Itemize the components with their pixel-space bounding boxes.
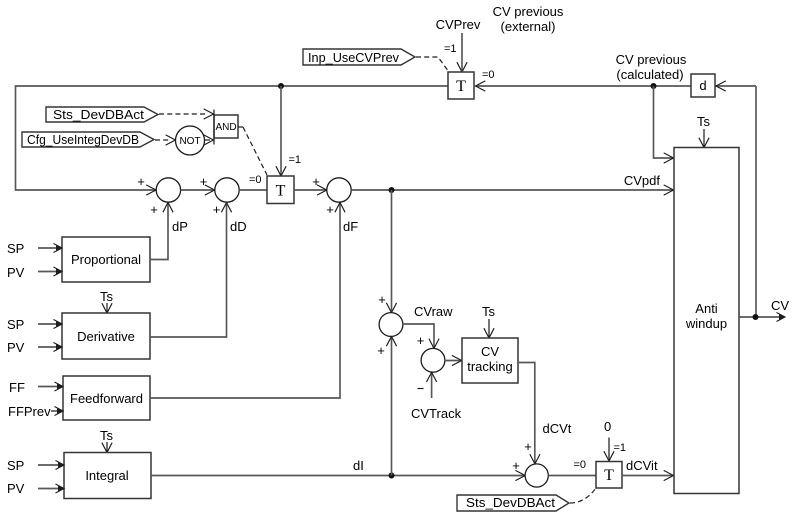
svg-text:=0: =0 <box>482 69 495 81</box>
wire: Ts arrow into Derivative <box>106 303 108 312</box>
svg-text:+: + <box>213 202 221 217</box>
svg-text:dD: dD <box>230 219 247 234</box>
svg-text:0: 0 <box>604 419 611 434</box>
svg-text:+: + <box>150 202 158 217</box>
svg-text:FFPrev: FFPrev <box>8 404 51 419</box>
tag Sts_DevDBAct (bottom) <box>457 495 569 511</box>
svg-text:dCVit: dCVit <box>626 458 658 473</box>
svg-text:Derivative: Derivative <box>77 329 135 344</box>
wire: Ts arrow into CV tracking <box>488 319 490 338</box>
svg-text:(calculated): (calculated) <box>616 67 683 82</box>
svg-text:Ts: Ts <box>697 114 711 129</box>
wire: Feedforward output up to S3 <box>150 203 340 398</box>
wire: Derivative output up to S2 <box>150 203 227 337</box>
summing junction S5 (tracking error) <box>421 348 445 372</box>
wire: S1 to S2 <box>181 189 215 191</box>
wire: Ts arrow into Anti windup <box>703 129 705 147</box>
svg-text:CV: CV <box>771 298 789 313</box>
wire: dashed from Cfg tag to NOT <box>155 139 169 141</box>
wire: dashed from tag to T3 bottom corner <box>570 488 596 503</box>
svg-text:Ts: Ts <box>100 289 114 304</box>
tag Cfg_UseIntegDevDB <box>22 132 154 147</box>
arrow into sum1 <box>146 185 156 195</box>
wire: CVPrev stub into T1 <box>461 33 463 70</box>
wire: T3 output dCVit into Anti windup <box>622 475 673 477</box>
svg-text:+: + <box>326 202 334 217</box>
wire: S6 to T3 <box>548 475 596 477</box>
node: junction dot CV previous (calculated) <box>651 83 657 89</box>
svg-text:dCVt: dCVt <box>543 421 572 436</box>
svg-text:CV previous: CV previous <box>493 4 564 19</box>
selector T1 <box>448 72 474 99</box>
svg-text:AND: AND <box>215 122 236 133</box>
svg-text:CV: CV <box>481 344 499 359</box>
wire: SP into Derivative <box>38 323 61 325</box>
svg-text:+: + <box>378 292 386 307</box>
svg-text:CVPrev: CVPrev <box>436 17 481 32</box>
svg-text:SP: SP <box>7 458 24 473</box>
wire: S5 to CV tracking box <box>445 360 462 362</box>
node: junction dot dF output <box>389 187 395 193</box>
wire: SP into Proportional <box>38 247 61 249</box>
svg-text:CV previous: CV previous <box>616 52 687 67</box>
svg-text:T: T <box>456 78 466 95</box>
svg-text:(external): (external) <box>501 19 556 34</box>
svg-text:Anti: Anti <box>695 301 718 316</box>
node: junction dot on CV output <box>753 314 759 320</box>
block CV tracking <box>462 338 518 383</box>
wire: Ts arrow into Integral <box>106 442 108 452</box>
svg-text:FF: FF <box>9 380 25 395</box>
node: junction dot on y=86 wire above T2 <box>278 83 284 89</box>
wire: CV tracking output down to S6 <box>518 363 535 464</box>
gate NOT <box>176 126 205 155</box>
svg-text:Ts: Ts <box>100 428 114 443</box>
wire: FFPrev into Feedforward <box>51 410 62 412</box>
svg-text:+: + <box>417 333 425 348</box>
svg-text:PV: PV <box>7 340 25 355</box>
wire: left feedback rail from T1 output going left, down, to sum1 <box>16 86 449 190</box>
wire: dashed from Inp_UseCVPrev to T1 corner <box>416 57 449 72</box>
svg-text:+: + <box>137 174 145 189</box>
block Anti windup <box>674 148 739 494</box>
selector T3 <box>596 462 622 489</box>
arrow into T2 top <box>276 166 286 176</box>
svg-text:T: T <box>276 183 286 200</box>
tag Sts_DevDBAct (top) <box>46 107 158 122</box>
svg-text:dI: dI <box>353 458 364 473</box>
wire: AND output stub + dashed diagonal to T2 <box>238 126 243 128</box>
svg-text:PV: PV <box>7 481 25 496</box>
block Proportional <box>62 237 150 282</box>
wire: PV into Derivative <box>38 346 61 348</box>
svg-text:Sts_DevDBAct: Sts_DevDBAct <box>466 495 555 510</box>
svg-text:+: + <box>377 343 385 358</box>
wire: dashed from Sts_DevDBAct to AND input <box>159 113 207 115</box>
svg-text:SP: SP <box>7 241 24 256</box>
wire: CVTrack stub into S5 bottom <box>431 372 433 398</box>
svg-text:dP: dP <box>172 219 188 234</box>
svg-text:=1: =1 <box>614 442 627 454</box>
wire: PV into Integral <box>38 488 63 490</box>
svg-text:+: + <box>524 439 532 454</box>
wire: from right rail into d box right side <box>716 85 756 87</box>
summing junction S2 <box>215 178 239 202</box>
svg-text:Ts: Ts <box>482 304 496 319</box>
svg-text:Integral: Integral <box>85 468 128 483</box>
wire: elbow from dot down into Anti windup left <box>654 86 674 158</box>
svg-text:dF: dF <box>343 219 358 234</box>
wire: PV into Proportional <box>38 271 61 273</box>
svg-text:=1: =1 <box>444 43 457 55</box>
arrow into d box right <box>716 81 726 91</box>
wire: CV output <box>739 316 784 318</box>
svg-text:=0: =0 <box>249 174 262 186</box>
summing junction S4 (CVraw) <box>379 313 403 337</box>
svg-text:Inp_UseCVPrev: Inp_UseCVPrev <box>308 50 399 65</box>
node: junction dot on dI wire <box>389 473 395 479</box>
svg-text:T: T <box>604 467 614 484</box>
summing junction S1 <box>156 178 180 202</box>
svg-text:windup: windup <box>685 316 727 331</box>
svg-text:PV: PV <box>7 265 25 280</box>
wire: S4 output to S5 <box>403 324 434 348</box>
arrow into Anti windup (CV prev calc) <box>664 153 674 163</box>
wire: 0 stub into T3 <box>608 438 610 461</box>
wire: NOT to AND <box>205 139 211 141</box>
wire: vertical from dF dot down into S4 top <box>391 190 393 312</box>
svg-text:SP: SP <box>7 317 24 332</box>
svg-text:Feedforward: Feedforward <box>70 391 143 406</box>
svg-text:=0: =0 <box>574 459 587 471</box>
summing junction S6 <box>525 464 548 487</box>
svg-text:+: + <box>312 174 320 189</box>
selector T2 <box>267 176 294 204</box>
block Feedforward <box>63 376 150 420</box>
svg-text:Proportional: Proportional <box>71 252 141 267</box>
arrow into T1 right side <box>476 81 486 91</box>
svg-text:=1: =1 <box>289 154 302 166</box>
minus label <box>418 388 424 390</box>
svg-text:d: d <box>699 78 706 93</box>
wire: T2 to S3 <box>294 189 327 191</box>
svg-text:CVTrack: CVTrack <box>411 406 462 421</box>
svg-text:Cfg_UseIntegDevDB: Cfg_UseIntegDevDB <box>27 132 139 147</box>
svg-text:+: + <box>200 174 208 189</box>
wire: SP into Integral <box>38 464 63 466</box>
wire: Proportional output up to S1 <box>150 203 168 260</box>
wire: right feedback rail <box>755 86 757 317</box>
wire: vertical from dot to T2 top <box>280 86 282 176</box>
block Derivative <box>62 313 150 359</box>
wire: S3 to Anti windup (CVpdf) <box>351 189 673 191</box>
svg-text:Sts_DevDBAct: Sts_DevDBAct <box>53 107 144 122</box>
wire: dI from Integral to S6 <box>151 475 525 477</box>
wire: S2 to T2 <box>239 189 267 191</box>
svg-text:CVraw: CVraw <box>414 304 453 319</box>
svg-text:NOT: NOT <box>179 136 200 147</box>
tag Inp_UseCVPrev <box>303 49 415 65</box>
block Integral <box>64 453 151 499</box>
summing junction S3 <box>327 178 351 202</box>
block d (delay) <box>691 74 715 97</box>
arrow into T1 top <box>457 62 467 72</box>
wire: T1 right input from d box left edge <box>476 85 692 87</box>
svg-text:tracking: tracking <box>467 359 513 374</box>
svg-text:+: + <box>512 458 520 473</box>
gate AND <box>214 115 238 138</box>
wire: vertical from dI dot up into S4 bottom <box>391 337 393 476</box>
wire: FF into Feedforward <box>38 386 62 388</box>
svg-text:CVpdf: CVpdf <box>624 173 661 188</box>
